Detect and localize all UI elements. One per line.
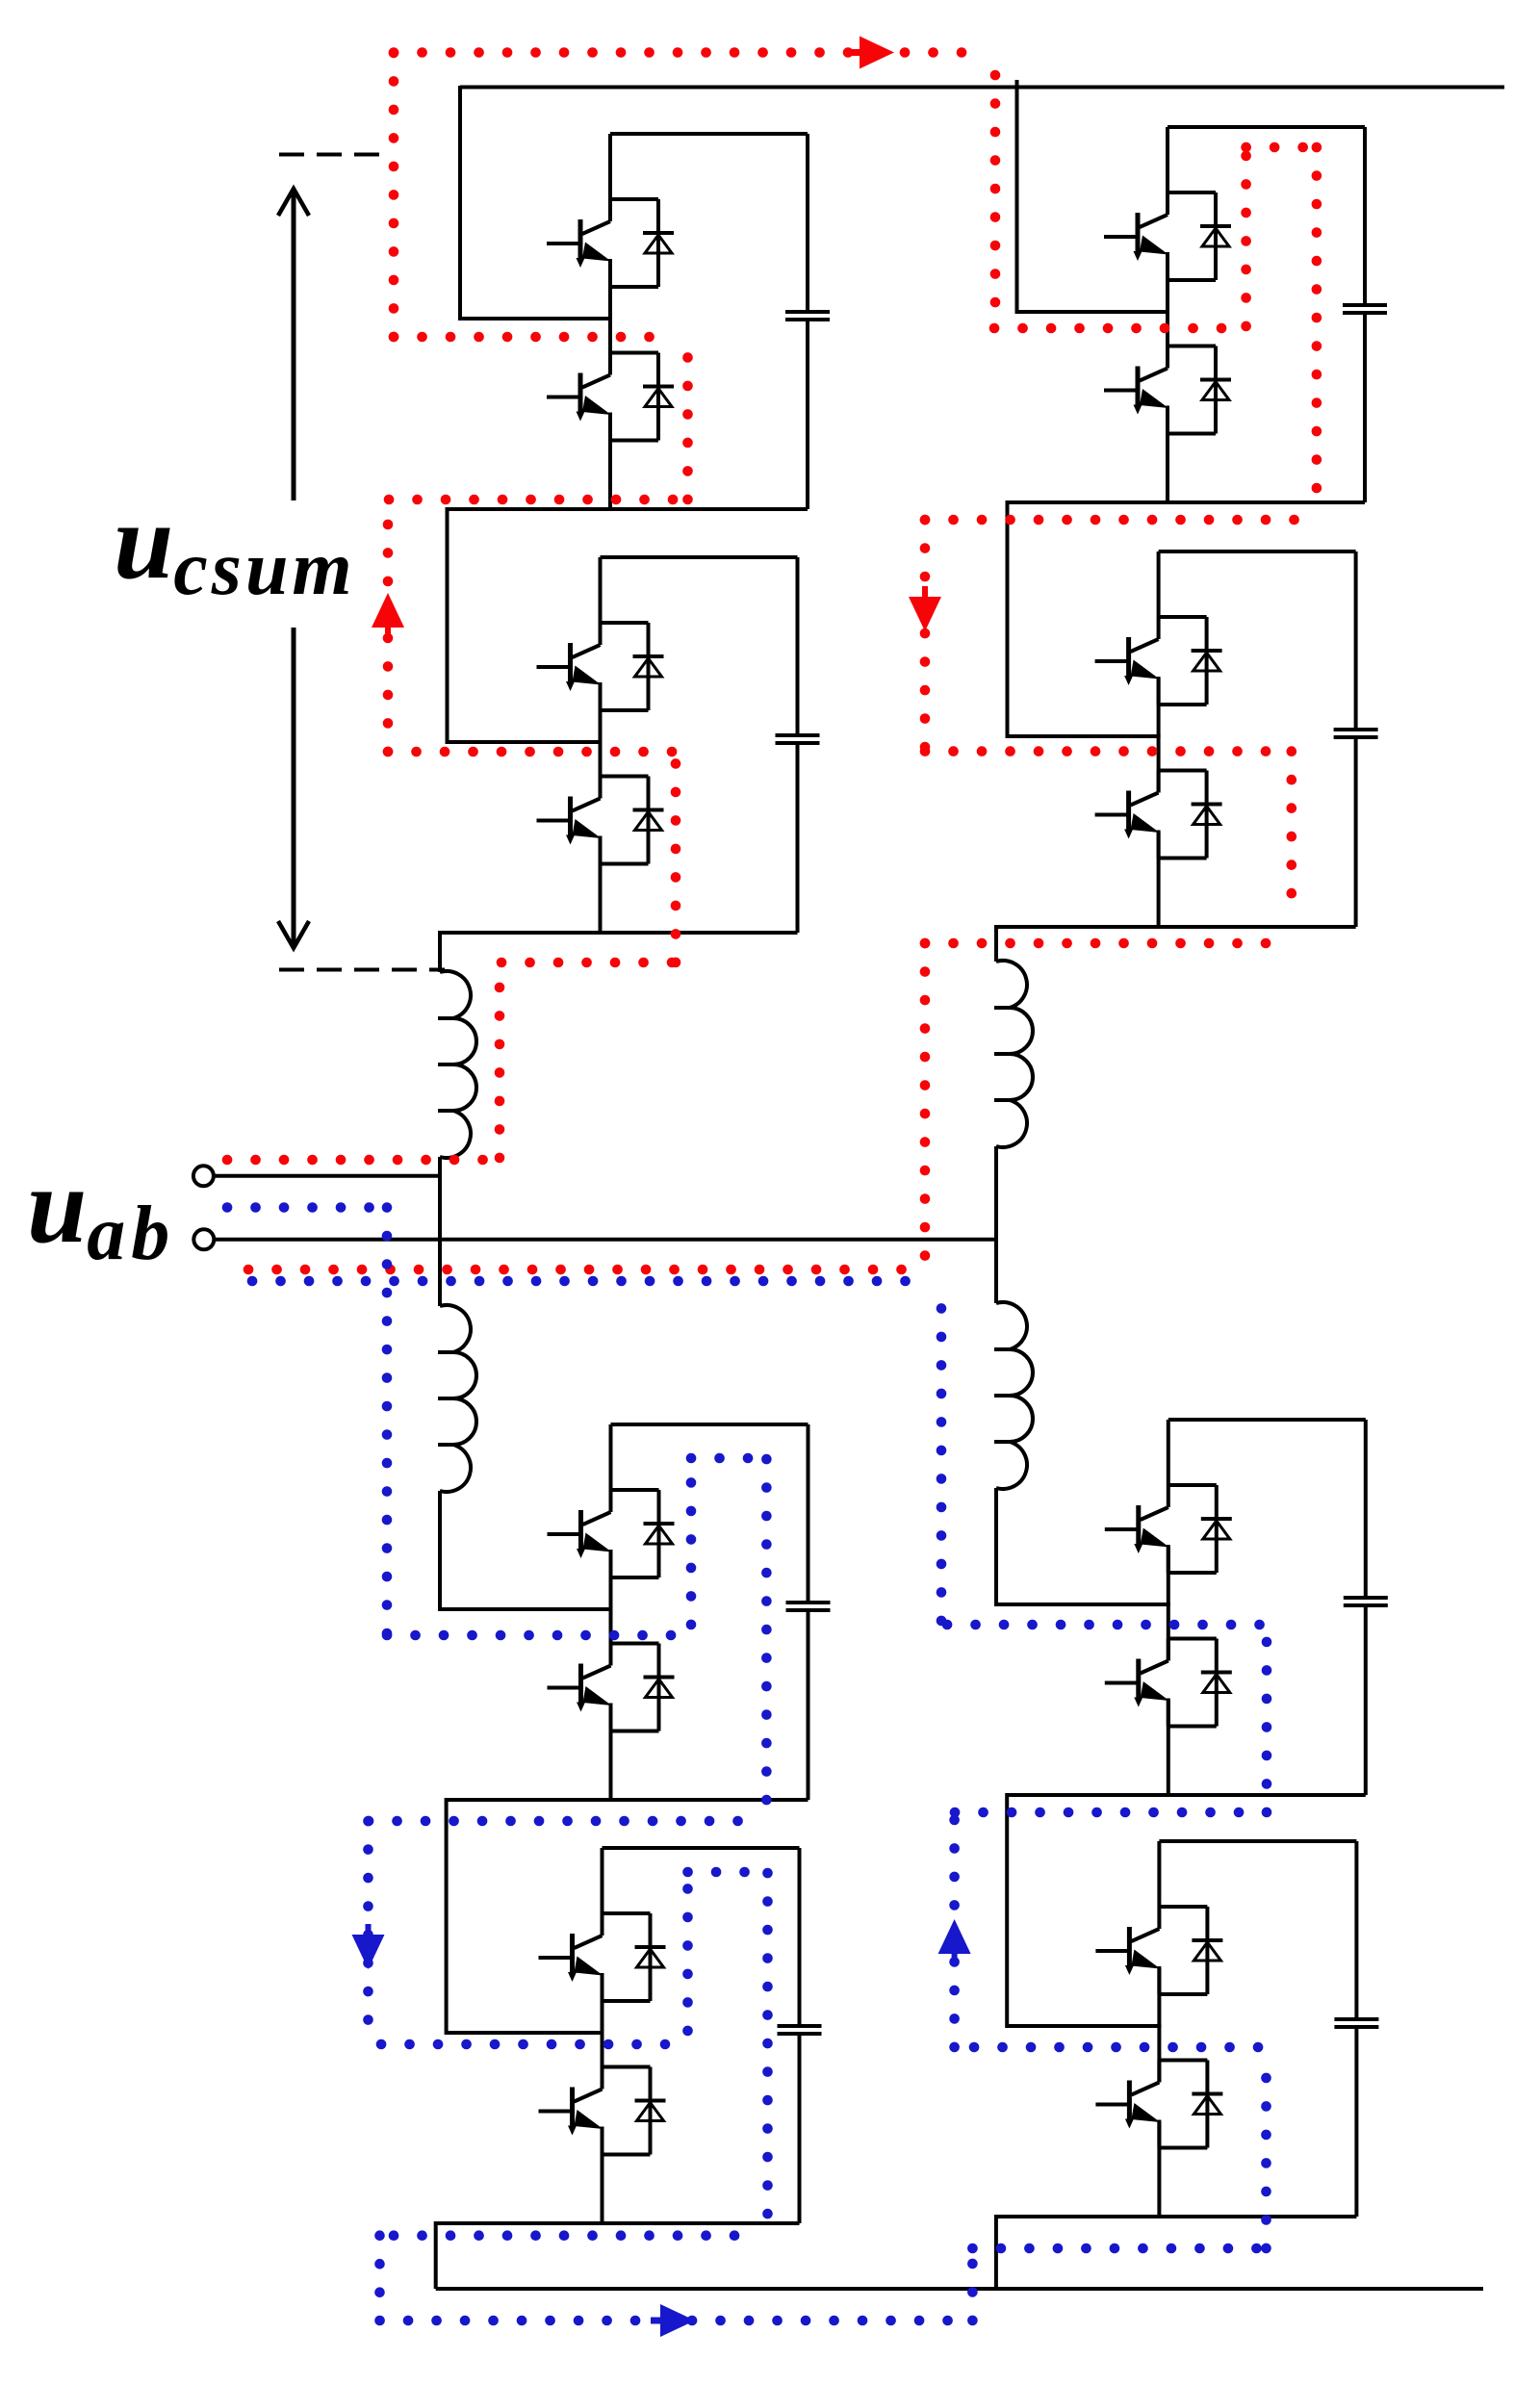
- wire SM1 bottom node: [448, 507, 808, 511]
- inductor L2 (arm inductor): [440, 1305, 476, 1492]
- arrow blue right (bottom row): [660, 2304, 695, 2337]
- transistor Q8A (IGBT): [1095, 1907, 1159, 1951]
- wire blue path long row to b-terminal: [252, 1276, 928, 1287]
- wire blue path up through SM4 upper IGBT: [682, 1877, 693, 2031]
- inductor L1 (arm inductor): [440, 971, 476, 1158]
- wire phase b line: [215, 1238, 997, 1242]
- transistor Q1B (IGBT): [547, 353, 610, 397]
- wire blue path SM7 midpoint row: [947, 1620, 1263, 1630]
- wire SM1 internal top rail: [610, 132, 808, 136]
- wire red path through SM1 lower IGBT: [682, 337, 693, 500]
- submodule SM8: [1095, 1841, 1378, 2217]
- wire blue path over SM3 top: [691, 1453, 751, 1464]
- wire SM6 bottom node: [996, 925, 1356, 929]
- wire SM5 upper stem: [1166, 127, 1169, 192]
- wire blue path over SM4 top: [688, 1867, 761, 1878]
- wire bottom DC rail: [436, 2287, 1483, 2291]
- wire SM7 upper stem: [1167, 1420, 1170, 1485]
- wire red path SM1 midpoint row: [394, 332, 668, 343]
- wire blue path up left of SM8: [949, 1812, 960, 2047]
- arrow red right (top row): [860, 37, 894, 69]
- submodule SM4: [539, 1848, 822, 2223]
- transistor Q4A (IGBT): [539, 1913, 603, 1958]
- wire red path SM5 bottom row: [925, 515, 1315, 526]
- transistor Q5B (IGBT): [1104, 346, 1168, 391]
- node red current path: a-terminal row: [227, 1155, 493, 1166]
- wire left arm to upper inductor: [438, 931, 442, 972]
- wire blue path SM3 bottom row: [369, 1816, 760, 1827]
- wire SM4 internal top rail: [603, 1846, 800, 1850]
- wire red path down to SM5: [990, 75, 1001, 328]
- wire red path SM5 midpoint row: [994, 323, 1225, 334]
- wire red path top row: [394, 47, 989, 58]
- wire SM8 lower stem: [1157, 2122, 1161, 2218]
- wire SM7 lower stem: [1167, 1701, 1170, 1796]
- capacitor C8: [1354, 1841, 1358, 2017]
- wire blue path up through SM3 upper IGBT: [686, 1459, 697, 1625]
- wire SM4 midpoint stem: [601, 1975, 604, 2090]
- wire blue path SM7 bottom row: [955, 1808, 1261, 1818]
- transistor Q6A (IGBT): [1095, 617, 1159, 661]
- wire blue path through SM7 lower IGBT: [1262, 1627, 1272, 1812]
- wire SM5 lower stem: [1166, 408, 1169, 503]
- wire SM8 midpoint stem: [1157, 1968, 1161, 2083]
- arrow blue up (right leg): [938, 1919, 971, 1954]
- diode D5A (anti-parallel): [1214, 192, 1218, 280]
- transistor Q4B (IGBT): [539, 2067, 603, 2112]
- wire red path through SM2 lower IGBT: [671, 760, 681, 962]
- submodule SM6: [1095, 551, 1378, 927]
- capacitor C5: [1363, 127, 1367, 303]
- wire SM6 input (SM5 node to SM6 midpoint): [1008, 500, 1161, 736]
- transistor Q1A (IGBT): [547, 199, 610, 244]
- wire blue path below SM8 node: [972, 2244, 1266, 2254]
- transistor Q2B (IGBT): [537, 777, 601, 821]
- wire SM8 internal top rail: [1159, 1839, 1356, 1843]
- wire red path SM2 midpoint row: [388, 747, 674, 757]
- wire left arm AC junction: [438, 1157, 442, 1306]
- wire right arm AC junction: [994, 1146, 998, 1303]
- wire SM7 bottom node: [1007, 1793, 1366, 1797]
- wire red path SM1 bottom row: [389, 495, 687, 505]
- wire SM6 internal top rail: [1159, 550, 1356, 553]
- capacitor C2: [796, 557, 800, 733]
- wire SM4 node to bottom rail: [434, 2221, 438, 2289]
- node b terminal (circle): [193, 1229, 214, 1249]
- diode D5B (anti-parallel): [1214, 346, 1218, 434]
- diode D2B (anti-parallel): [647, 777, 651, 864]
- wire SM6 midpoint stem: [1157, 679, 1161, 793]
- wire blue path up to SM8: [967, 2248, 978, 2321]
- wire SM1 upper stem: [608, 134, 612, 199]
- u_csum dimension arrow (double-headed): [278, 189, 309, 948]
- diode D7A (anti-parallel): [1215, 1485, 1219, 1573]
- arrow red up (left leg): [372, 593, 404, 628]
- dashed reference line (top of u_csum span): [279, 153, 380, 157]
- wire SM3 bottom node: [447, 1798, 808, 1802]
- transistor Q8B (IGBT): [1095, 2061, 1159, 2105]
- wire blue path down through SM3 capacitor: [761, 1459, 772, 1811]
- wire SM3 upper stem: [609, 1424, 613, 1490]
- wire SM7 internal top rail: [1168, 1418, 1366, 1422]
- wire SM4 input (SM3 node to SM4 midpoint): [447, 1798, 604, 2033]
- wire red path down left of SM6: [920, 520, 931, 751]
- wire red path long bottom row to a-terminal: [248, 1265, 926, 1275]
- wire blue path down left of SM4: [363, 1821, 373, 2032]
- wire SM2 input (SM1 node to SM2 midpoint): [448, 507, 603, 742]
- wire SM2 internal top rail: [601, 555, 798, 559]
- wire SM8 upper stem: [1157, 1841, 1161, 1907]
- submodule SM2: [537, 557, 820, 933]
- transistor Q3B (IGBT): [548, 1644, 611, 1688]
- wire lower-right inductor to SM7 midpoint: [996, 1488, 1170, 1604]
- wire red path up through SM5 upper IGBT: [1241, 147, 1251, 326]
- submodule SM3: [548, 1424, 831, 1800]
- diode D2A (anti-parallel): [647, 623, 651, 710]
- wire SM1 lower stem: [608, 415, 612, 510]
- wire red path down right arm: [920, 943, 931, 1269]
- transistor Q7B (IGBT): [1105, 1639, 1168, 1683]
- wire red path up left of SM1: [389, 53, 399, 338]
- capacitor C3: [807, 1424, 810, 1601]
- inductor L3 (arm inductor): [996, 961, 1033, 1147]
- wire SM6 upper stem: [1157, 551, 1161, 617]
- wire SM4 upper stem: [601, 1848, 604, 1913]
- wire lower-left inductor to SM3 midpoint: [440, 1491, 613, 1609]
- wire SM6 lower stem: [1157, 833, 1161, 928]
- wire phase a line: [214, 1174, 440, 1178]
- wire blue path SM4 bottom row: [394, 2230, 762, 2241]
- submodule SM5: [1104, 127, 1387, 502]
- wire red path over SM5 top: [1246, 142, 1317, 153]
- wire top DC rail: [460, 86, 1504, 90]
- wire SM4 bottom node: [436, 2221, 800, 2225]
- node a terminal (circle): [193, 1166, 214, 1186]
- wire SM2 lower stem: [599, 838, 603, 934]
- wire SM2 upper stem: [599, 557, 603, 623]
- wire SM5 bottom node: [1008, 500, 1366, 504]
- diode D1B (anti-parallel): [656, 353, 660, 441]
- node blue current path: a-terminal row: [227, 1202, 370, 1213]
- wire SM5 midpoint stem: [1166, 254, 1169, 369]
- wire SM7 midpoint stem: [1167, 1547, 1170, 1661]
- wire red path SM6 midpoint row: [925, 746, 1292, 757]
- capacitor C7: [1364, 1420, 1368, 1596]
- wire blue path SM8 midpoint row: [974, 2042, 1261, 2053]
- wire SM3 internal top rail: [611, 1423, 808, 1426]
- diode D7B (anti-parallel): [1215, 1639, 1219, 1727]
- wire blue path down left of lower-left inductor: [382, 1208, 393, 1636]
- wire blue path up right arm: [937, 1285, 947, 1621]
- wire blue path SM4 midpoint row: [381, 2039, 665, 2050]
- wire SM2 midpoint stem: [599, 684, 603, 799]
- diode D4B (anti-parallel): [649, 2067, 653, 2155]
- wire SM1 input (top rail to SM1 midpoint): [460, 86, 612, 319]
- wire SM3 lower stem: [609, 1705, 613, 1801]
- wire blue path down to bottom row: [374, 2236, 385, 2320]
- wire SM3 midpoint stem: [609, 1552, 613, 1666]
- submodule SM1: [547, 134, 830, 509]
- transistor Q5A (IGBT): [1104, 192, 1168, 237]
- diode D6A (anti-parallel): [1205, 617, 1209, 705]
- wire SM5 internal top rail: [1168, 125, 1365, 129]
- wire red path below SM2 node: [501, 958, 676, 968]
- capacitor C4: [798, 1848, 802, 2024]
- diode D8A (anti-parallel): [1205, 1907, 1209, 1994]
- wire red path up right of upper-left inductor: [495, 962, 505, 1158]
- diode D6B (anti-parallel): [1205, 771, 1209, 859]
- transistor Q2A (IGBT): [537, 623, 601, 667]
- wire red path down through SM5 capacitor: [1312, 147, 1322, 495]
- wire red path SM6 bottom row: [925, 938, 1284, 949]
- wire SM8 input (SM7 node to SM8 midpoint): [1007, 1793, 1161, 2026]
- transistor Q7A (IGBT): [1105, 1485, 1168, 1529]
- wire blue path SM3 midpoint row: [387, 1630, 674, 1641]
- capacitor C1: [806, 134, 809, 310]
- submodule SM7: [1105, 1420, 1388, 1795]
- wire SM5 input (top rail to SM5 midpoint): [1017, 80, 1170, 312]
- arrow blue down (left leg): [352, 1935, 385, 1969]
- diode D3B (anti-parallel): [657, 1644, 661, 1731]
- diode D3A (anti-parallel): [657, 1490, 661, 1577]
- wire SM2 bottom node: [438, 931, 798, 935]
- wire blue path down through SM4 capacitor: [762, 1873, 773, 2215]
- wire SM8 node to bottom rail: [994, 2215, 998, 2289]
- wire SM8 bottom node: [996, 2215, 1357, 2218]
- transistor Q3A (IGBT): [548, 1490, 611, 1534]
- inductor L4 (arm inductor): [996, 1302, 1033, 1489]
- transistor Q6B (IGBT): [1095, 771, 1159, 815]
- capacitor C6: [1354, 551, 1358, 728]
- diode D1A (anti-parallel): [656, 199, 660, 287]
- wire blue path through SM8 lower IGBT: [1261, 2050, 1271, 2248]
- arrow red down (right leg): [909, 597, 941, 631]
- wire SM4 lower stem: [601, 2129, 604, 2224]
- diode D4A (anti-parallel): [649, 1913, 653, 2001]
- wire SM1 midpoint stem: [608, 261, 612, 375]
- dashed reference line (bottom of u_csum span): [279, 968, 445, 972]
- wire red path through SM6 lower IGBT: [1287, 752, 1297, 918]
- wire right arm to upper inductor: [994, 925, 998, 962]
- wire blue path long bottom row: [380, 2316, 973, 2326]
- wire red path up left of SM2: [383, 500, 394, 752]
- diode D8B (anti-parallel): [1205, 2061, 1209, 2148]
